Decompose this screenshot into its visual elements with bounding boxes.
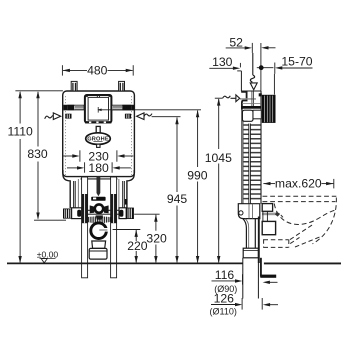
flush pipe stub to bowl (262, 212, 283, 218)
wall face line (240, 71, 242, 91)
outlet funnel (89, 241, 107, 259)
anchor rod left (64, 105, 84, 110)
svg-text:126: 126 (214, 292, 235, 306)
dim 480 (62, 65, 133, 75)
floor flange black bar (260, 275, 276, 278)
wall arrow left (squiggle) (45, 113, 61, 120)
svg-text:1110: 1110 (8, 125, 34, 139)
foot left ribbed block (63, 209, 72, 219)
tank seam dark band (241, 104, 261, 109)
anchor nut left (65, 114, 71, 119)
fill valve box (242, 110, 253, 121)
cistern top plate (241, 92, 246, 110)
anchor nut right (125, 114, 131, 119)
frame inner dotted right edge (131, 96, 133, 175)
1045 squiggle arrow right (223, 95, 240, 102)
dim 15-70 (274, 54, 312, 94)
floor line right segment (264, 262, 341, 264)
svg-text:±0.00: ±0.00 (37, 250, 59, 260)
dim 945 line (176, 118, 178, 263)
drain pipe below floor (243, 258, 259, 299)
drain pipe right thick edge (260, 258, 262, 277)
top extension line (15, 90, 63, 92)
GROHE logo stem (96, 126, 100, 133)
FRONT-VIEW (7, 81, 243, 277)
dim 230 (63, 150, 133, 161)
LEFT-DIMS (8, 63, 134, 263)
small valve circle (95, 204, 103, 212)
bottom anchor rod (72, 210, 126, 214)
flush bend housing (238, 204, 259, 219)
wall arrow right (squiggle) + 945 extension (137, 113, 181, 120)
hanger bolt left (71, 81, 77, 91)
small trapezoid below circle (96, 215, 103, 219)
connecting pipe between boxes (263, 211, 268, 221)
dim 320 extension (134, 213, 159, 215)
svg-text:220: 220 (127, 239, 148, 253)
soil pipe dark edge above floor (258, 217, 260, 264)
dim 1110 line (19, 92, 21, 262)
dim 52 (226, 35, 276, 91)
opening corner ticks (86, 95, 111, 97)
outlet connector box lower (262, 221, 275, 234)
dashed outlet funnel of bowl (264, 224, 322, 247)
dim 130 (209, 55, 240, 70)
dim 126 (Ø110) (210, 292, 278, 317)
opening bottom tick band (85, 121, 111, 123)
svg-text:130: 130 (212, 55, 233, 69)
threaded adjusting collar (ribbed block) (259, 93, 276, 123)
waste outlet circle (91, 223, 108, 239)
tank top line (241, 90, 261, 92)
dim max.620 (263, 177, 334, 191)
svg-text:(Ø110): (Ø110) (210, 306, 237, 316)
flush plate opening outer (85, 95, 112, 122)
rod clamp wedge right (104, 205, 109, 213)
rail centre posts (249, 124, 251, 204)
52 squiggle arrow down (250, 53, 257, 90)
flush plate opening inner (88, 97, 108, 120)
flush valve box (253, 110, 261, 119)
svg-text:990: 990 (187, 169, 208, 183)
hatched crown over outlet (88, 216, 111, 223)
outlet elbow (243, 219, 255, 249)
anchor rod right (112, 105, 134, 110)
wall reference dot (257, 65, 274, 70)
frame inner dotted left edge (65, 96, 67, 175)
black latch bar (91, 197, 105, 201)
GROHE logo oval (86, 133, 111, 145)
dashed toilet bowl seat lines (263, 196, 337, 201)
logo lower stem (97, 144, 100, 147)
tank right edge (260, 91, 262, 204)
foot right bracket (119, 208, 126, 219)
dim 220 line (135, 230, 137, 262)
MID-DIMS (113, 110, 208, 263)
frame body (63, 91, 135, 177)
right lower arm (119, 170, 134, 208)
dim 830 line (37, 92, 39, 219)
svg-text:15-70: 15-70 (281, 54, 312, 68)
outlet connector box upper (262, 204, 272, 212)
tank inner left edge (242, 110, 244, 204)
tank left edge (241, 103, 243, 204)
RIGHT-DIMS (205, 35, 334, 316)
svg-text:320: 320 (146, 231, 167, 245)
flush pipe in tank (252, 92, 254, 107)
left lower arm (63, 170, 78, 208)
dim 116 (Ø90) (212, 268, 278, 294)
dim 320 line (155, 215, 157, 262)
svg-text:180: 180 (88, 161, 109, 175)
dim 180 (67, 162, 131, 172)
svg-text:945: 945 (167, 192, 188, 206)
SIDE-VIEW (237, 71, 341, 299)
frame bottom centre edge (81, 178, 118, 180)
rod clamp wedge left (90, 205, 95, 213)
datum ±0.00 (37, 250, 59, 263)
hanger bolt right (119, 81, 125, 91)
svg-text:1045: 1045 (205, 151, 232, 165)
right leg (111, 177, 117, 278)
elbow socket (243, 248, 258, 258)
floor line (7, 262, 243, 264)
dim 1045 line (215, 98, 223, 262)
svg-text:480: 480 (87, 63, 108, 77)
wall top line (237, 70, 241, 72)
drop arrow (actuation rod) (97, 176, 101, 196)
svg-text:116: 116 (215, 268, 235, 282)
foot right ribbed block (126, 208, 134, 219)
dim 220 extension (113, 229, 141, 231)
left leg (82, 177, 88, 278)
frame rail ladder rungs (243, 125, 260, 199)
830 lower extension line (34, 219, 66, 221)
dim 990 line (197, 111, 199, 263)
dashed bowl outline (274, 198, 336, 244)
svg-text:52: 52 (229, 35, 243, 49)
svg-text:830: 830 (27, 147, 48, 161)
plate centre mark + centre line to side view (97, 107, 201, 113)
supply pipe line (240, 98, 256, 100)
foot left bracket (72, 208, 82, 219)
svg-text:max.620: max.620 (275, 177, 322, 191)
